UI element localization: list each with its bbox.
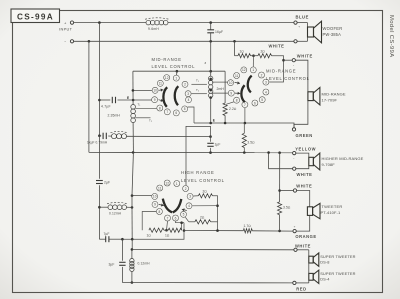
inductor L6 0.12mH xyxy=(130,249,150,282)
label GREEN xyxy=(296,133,313,138)
wire railB to S3 c10 xyxy=(132,195,152,197)
node wireA x177 xyxy=(176,70,179,73)
svg-text:1: 1 xyxy=(175,76,177,80)
svg-text:ORANGE: ORANGE xyxy=(295,234,316,239)
svg-text:GREEN: GREEN xyxy=(296,133,313,138)
node R7 R8 xyxy=(164,229,168,232)
terminal white hm xyxy=(293,167,296,170)
svg-text:4.7µF: 4.7µF xyxy=(101,105,111,109)
svg-text:WHITE: WHITE xyxy=(269,44,285,49)
switch S3 wiper left xyxy=(163,199,172,213)
tap wire L3 to S2 c9 xyxy=(212,92,228,94)
node railB y239 xyxy=(131,238,134,241)
node orange x279 xyxy=(278,230,281,233)
svg-text:3: 3 xyxy=(265,80,267,84)
label WHITE st xyxy=(295,244,311,249)
svg-text:HIGH RANGE: HIGH RANGE xyxy=(181,170,215,175)
label WHITE hm xyxy=(297,172,313,177)
inductor L1 9.6mH xyxy=(145,18,169,31)
node L6 top xyxy=(131,248,134,251)
wire S3 c4 out xyxy=(192,205,217,207)
label YELLOW xyxy=(295,147,316,152)
svg-text:+: + xyxy=(294,225,296,229)
svg-text:WHITE: WHITE xyxy=(297,53,313,58)
wire 0.12mH branch xyxy=(99,206,108,208)
speaker woofer xyxy=(308,21,322,43)
svg-text:2Ω: 2Ω xyxy=(203,190,208,194)
capacitor C5 1uF xyxy=(207,137,220,153)
node x279 y190 xyxy=(278,189,281,192)
svg-text:SUPER TWEETER: SUPER TWEETER xyxy=(320,254,355,259)
svg-text:2: 2 xyxy=(184,83,186,87)
wire x184 down xyxy=(122,223,184,240)
wire R3 to white xyxy=(269,56,283,82)
node label E1 xyxy=(127,96,129,100)
capacitor C2 2uF xyxy=(96,181,110,185)
svg-text:E: E xyxy=(127,96,129,100)
terminal yellow xyxy=(293,151,296,160)
resistor R6 2ohm xyxy=(189,216,211,224)
inductor L4 0.79mH xyxy=(111,131,128,138)
stub to sw1 contact1 xyxy=(176,71,178,75)
svg-text:16µF: 16µF xyxy=(215,30,223,34)
svg-text:Model CS-99A: Model CS-99A xyxy=(388,15,394,58)
svg-text:2Ω: 2Ω xyxy=(261,50,266,54)
svg-text:0.12mH: 0.12mH xyxy=(109,212,122,216)
wire T2 link xyxy=(191,88,207,94)
wire bus mid xyxy=(194,123,294,128)
label BLUE xyxy=(296,15,309,20)
node buslow x244 xyxy=(243,151,246,154)
speaker super tweeter 2 xyxy=(309,270,319,283)
svg-text:RED: RED xyxy=(296,286,306,291)
label ORANGE xyxy=(295,234,316,239)
svg-text:10: 10 xyxy=(153,195,157,199)
svg-text:7µF: 7µF xyxy=(104,232,110,236)
stub to S2 contact1 xyxy=(252,56,254,67)
speaker higher mid xyxy=(309,153,320,170)
switch S3 wiper right xyxy=(173,199,182,212)
wire S3 c6 drop xyxy=(176,221,185,223)
svg-text:8: 8 xyxy=(159,106,161,110)
switch S2 wiper upper xyxy=(248,76,252,93)
node railB y90 xyxy=(132,89,135,92)
resistor R5 2ohm xyxy=(198,190,212,198)
svg-text:TWEETER: TWEETER xyxy=(322,204,343,209)
svg-text:1Ω: 1Ω xyxy=(240,50,245,54)
wire railB mid xyxy=(132,152,133,239)
svg-text:1Ω: 1Ω xyxy=(165,233,170,237)
node bus2 input xyxy=(88,40,91,43)
rotary switch S3 contacts xyxy=(152,180,193,221)
inductor L3 2mH xyxy=(209,76,225,97)
wiper arrow S1 b xyxy=(159,89,164,92)
svg-text:3.5Ω: 3.5Ω xyxy=(247,141,255,145)
terminal blue xyxy=(294,21,300,29)
wire R6 right xyxy=(211,221,218,223)
wire mid leads xyxy=(294,60,308,127)
label WHITE woofer xyxy=(269,44,285,49)
resistor R2 1ohm xyxy=(235,50,251,58)
svg-text:HIGHER MID-RANGE: HIGHER MID-RANGE xyxy=(322,156,364,161)
wire hp feed up xyxy=(186,126,211,185)
label high range xyxy=(181,170,225,183)
svg-text:INPUT: INPUT xyxy=(59,28,73,32)
wire white tweeter xyxy=(280,190,294,192)
svg-text:6: 6 xyxy=(254,101,256,105)
svg-text:2.35mH: 2.35mH xyxy=(108,114,121,118)
node x217 y230 xyxy=(216,229,219,232)
node bus2 x210 xyxy=(209,40,212,43)
node L3 bottom xyxy=(209,96,212,99)
svg-text:4: 4 xyxy=(265,90,267,94)
wire red bus xyxy=(122,282,292,284)
node x184 y230 xyxy=(183,229,186,232)
switch S2 wiper lower xyxy=(241,85,244,102)
wire L5 to railB xyxy=(127,206,133,208)
wire S1 bottom to busmid xyxy=(188,107,194,123)
svg-text:11: 11 xyxy=(159,82,163,86)
rotary switch S2 contacts xyxy=(228,67,269,108)
svg-text:10: 10 xyxy=(229,81,233,85)
svg-text:1kµF 0.79mH: 1kµF 0.79mH xyxy=(87,141,108,145)
svg-text:MID-RANGE: MID-RANGE xyxy=(266,69,296,74)
svg-text:2Ω: 2Ω xyxy=(200,216,205,220)
rotary switch S1 contacts xyxy=(152,75,192,116)
terminal orange xyxy=(293,225,296,233)
wire railB corner xyxy=(131,239,133,249)
wiper arrow S3 b xyxy=(182,208,187,211)
wire S3 c3 out xyxy=(193,195,198,197)
svg-text:12: 12 xyxy=(242,68,246,72)
capacitor C4 1kuF xyxy=(87,133,108,145)
svg-text:E: E xyxy=(213,119,215,123)
node L3 mid tap xyxy=(209,89,212,92)
node bus1 x99 xyxy=(98,21,101,24)
terminal red xyxy=(293,281,296,284)
svg-text:2mH: 2mH xyxy=(217,87,225,91)
svg-text:11: 11 xyxy=(158,186,162,190)
switch S1 wiper left xyxy=(163,87,167,107)
node 7uF x122 xyxy=(121,238,124,241)
tap wire L3 to S2 c10 xyxy=(212,81,228,83)
wire tweeter pad xyxy=(184,230,243,232)
svg-text:WOOFER: WOOFER xyxy=(323,26,343,31)
speaker tweeter xyxy=(307,203,320,218)
svg-text:6: 6 xyxy=(175,216,177,220)
wire 2.2ohm bottom xyxy=(224,116,226,124)
resistor R8 1ohm xyxy=(165,228,182,237)
node L6 bottom xyxy=(131,281,134,284)
wire R5 right xyxy=(212,196,217,231)
svg-text:CS-99A: CS-99A xyxy=(17,12,54,21)
node 2.35mH top xyxy=(132,99,135,102)
wiper arrow S2 b xyxy=(235,92,240,95)
svg-text:3.5Ω: 3.5Ω xyxy=(283,206,291,210)
input terminal minus xyxy=(64,39,73,44)
node railB y195 xyxy=(131,194,134,197)
resistor R3 2ohm xyxy=(258,50,272,58)
svg-text:WHITE: WHITE xyxy=(297,172,313,177)
label WHITE tw xyxy=(296,184,312,189)
svg-text:MID-RANGE: MID-RANGE xyxy=(322,91,346,96)
node rail plus y135 xyxy=(98,134,101,137)
wire white hm return xyxy=(267,151,292,169)
model label xyxy=(388,15,394,58)
wire S2 c8 diag xyxy=(226,102,234,105)
label tweeter xyxy=(321,204,343,215)
wiper arrow S2 a xyxy=(235,81,240,84)
svg-text:2: 2 xyxy=(261,73,263,77)
svg-text:5: 5 xyxy=(261,98,263,102)
resistor R10 3.5ohm xyxy=(278,202,282,215)
speaker super tweeter 1 xyxy=(309,253,319,266)
svg-text:7: 7 xyxy=(166,110,168,114)
svg-text:12: 12 xyxy=(165,76,169,80)
node busmid x210 xyxy=(209,122,212,125)
svg-text:9: 9 xyxy=(230,91,232,95)
svg-text:11: 11 xyxy=(235,74,239,78)
capacitor C6 7uF xyxy=(99,232,122,242)
resistor R4 3.5ohm xyxy=(242,123,255,153)
wire bus2 xyxy=(74,40,294,42)
wire hp branch xyxy=(99,135,210,138)
wire 2.35mH bottom xyxy=(132,123,134,153)
svg-text:1.7Ω: 1.7Ω xyxy=(244,224,252,228)
node R2 R3 xyxy=(251,54,259,57)
node wireA x210 xyxy=(209,70,212,73)
wire 3uF line xyxy=(121,239,123,282)
wire super tweeter bus xyxy=(132,248,294,250)
label WHITE mid xyxy=(297,53,313,58)
svg-text:1Ω: 1Ω xyxy=(147,233,152,237)
resistor R9 1.7ohm xyxy=(243,224,252,233)
label super tweeter 1 xyxy=(320,254,355,264)
switch S1 wiper right xyxy=(175,86,179,105)
wire bus2 drop x234 xyxy=(234,41,236,55)
inductor L2 2.35mH xyxy=(108,105,136,123)
svg-text:YELLOW: YELLOW xyxy=(295,147,316,152)
input terminal plus xyxy=(64,20,74,25)
wire 1.7 to orange xyxy=(252,230,292,232)
svg-text:LEVEL CONTROL: LEVEL CONTROL xyxy=(266,76,310,81)
terminal white st xyxy=(294,248,297,251)
svg-text:BLUE: BLUE xyxy=(296,15,309,20)
svg-text:9.6mH: 9.6mH xyxy=(148,27,159,31)
svg-text:9: 9 xyxy=(154,98,156,102)
node white mid xyxy=(282,59,285,62)
tap T2 of L2 xyxy=(135,118,152,123)
svg-text:-: - xyxy=(293,156,294,160)
svg-text:7: 7 xyxy=(167,216,169,220)
wire higher mid leads xyxy=(296,153,309,169)
label RED xyxy=(296,286,306,291)
svg-text:8: 8 xyxy=(236,99,238,103)
wire T1 link xyxy=(191,78,207,84)
svg-text:12: 12 xyxy=(165,181,169,185)
label R10 xyxy=(283,206,291,210)
svg-text:4: 4 xyxy=(188,204,190,208)
wiper arrow S1 a xyxy=(159,99,164,102)
node hp x210 xyxy=(209,135,212,138)
wire x279 lower xyxy=(279,215,281,231)
node buslow x210 xyxy=(209,151,212,154)
wire 2.2ohm drop xyxy=(224,71,226,103)
wiper arrow S3 a xyxy=(159,204,164,207)
svg-text:17-709F: 17-709F xyxy=(322,97,338,102)
svg-text:DS-8: DS-8 xyxy=(320,259,329,264)
svg-text:PT-410F-1: PT-410F-1 xyxy=(321,210,341,215)
wire A xyxy=(133,70,225,72)
capacitor C3 4.7uF xyxy=(101,97,116,109)
wire bus1 left xyxy=(74,22,146,24)
svg-text:LEVEL CONTROL: LEVEL CONTROL xyxy=(181,178,225,183)
node label E2 xyxy=(213,119,215,123)
svg-text:2µF: 2µF xyxy=(104,181,110,185)
capacitor C7 3uF xyxy=(109,262,126,266)
svg-text:LEVEL CONTROL: LEVEL CONTROL xyxy=(152,64,196,69)
wire railB upper xyxy=(132,71,134,104)
node busmid x225 xyxy=(224,122,227,125)
label mid range control 2 xyxy=(266,69,310,81)
terminal green xyxy=(292,128,295,131)
svg-text:PW-385A: PW-385A xyxy=(323,32,342,37)
wire to S1 contact 10 xyxy=(133,89,152,91)
tap T1 of L2 xyxy=(135,103,156,109)
svg-text:2: 2 xyxy=(185,187,187,191)
svg-text:1: 1 xyxy=(252,68,254,72)
label INPUT xyxy=(59,28,73,32)
svg-text:10: 10 xyxy=(153,89,157,93)
svg-text:DS-4: DS-4 xyxy=(320,277,330,282)
node buslow x133 xyxy=(132,151,135,154)
node rail plus y100 xyxy=(98,99,101,102)
terminal white woofer xyxy=(294,40,297,43)
wire x279 upper xyxy=(279,153,281,202)
resistor R1 2.2ohm xyxy=(223,103,237,116)
label higher mid xyxy=(322,156,364,167)
svg-text:5: 5 xyxy=(184,107,186,111)
wire 4.7uF branch xyxy=(99,99,151,101)
svg-text:3µF: 3µF xyxy=(109,263,115,267)
label mid range control 1 xyxy=(152,57,196,69)
capacitor C1 16uF xyxy=(207,23,223,42)
node bus1 x210 xyxy=(209,21,212,24)
label super tweeter 2 xyxy=(320,271,355,281)
node x217 y205 xyxy=(216,204,219,207)
wire L3 bottom to busmid xyxy=(210,98,212,123)
wire S2 c7 drop xyxy=(244,108,246,123)
wire rail minus xyxy=(88,41,90,152)
svg-text:9: 9 xyxy=(154,203,156,207)
svg-text:MID-RANGE: MID-RANGE xyxy=(152,57,182,62)
node busmid x244 xyxy=(244,122,247,125)
svg-text:2.2Ω: 2.2Ω xyxy=(229,107,237,111)
wire bus low xyxy=(89,151,293,153)
label mid-range xyxy=(322,91,346,102)
svg-text:6: 6 xyxy=(175,111,177,115)
svg-text:1µF: 1µF xyxy=(215,142,221,146)
resistor R7 1ohm xyxy=(147,228,165,237)
wire bus1 right xyxy=(168,22,294,24)
wire S3 c5 out xyxy=(185,217,189,222)
inductor L5 0.12mH xyxy=(107,202,128,215)
terminal white mid xyxy=(292,59,295,68)
svg-text:T₁: T₁ xyxy=(196,78,199,82)
svg-text:WHITE: WHITE xyxy=(295,244,311,249)
svg-text:1: 1 xyxy=(176,182,178,186)
node L3 top tap xyxy=(209,78,212,81)
wire super tweeter lead top xyxy=(297,250,309,256)
svg-text:4: 4 xyxy=(188,98,190,102)
svg-text:SUPER TWEETER: SUPER TWEETER xyxy=(320,271,355,276)
wire tweeter leads xyxy=(296,191,309,232)
node bus2 x234 xyxy=(233,40,236,43)
svg-text:+: + xyxy=(298,25,300,29)
svg-text:WHITE: WHITE xyxy=(296,184,312,189)
svg-text:5: 5 xyxy=(183,213,185,217)
svg-text:7: 7 xyxy=(244,103,246,107)
node buslow x279 xyxy=(278,151,281,154)
label woofer xyxy=(323,26,343,37)
title box CS-99A xyxy=(11,9,60,23)
wire S3 c8 out xyxy=(142,212,156,231)
svg-text:0.12mH: 0.12mH xyxy=(138,262,151,266)
wire 16uF to coil xyxy=(205,41,211,76)
svg-text:T₁: T₁ xyxy=(138,103,141,107)
wire R8 up xyxy=(180,221,184,230)
node railB y207 xyxy=(131,206,134,209)
wire super tweeter mid xyxy=(308,263,310,273)
speaker mid-range xyxy=(308,87,320,105)
wire woofer leads xyxy=(297,23,307,42)
svg-text:9-708F: 9-708F xyxy=(322,162,336,167)
node rail plus y207 xyxy=(98,206,101,209)
terminal white tw xyxy=(293,189,296,192)
svg-text:3: 3 xyxy=(187,92,189,96)
svg-text:8: 8 xyxy=(159,210,161,214)
wire S3 c7 drop xyxy=(167,221,168,230)
svg-text:3: 3 xyxy=(189,195,191,199)
wire super tweeter lead bottom xyxy=(296,280,309,283)
wire rail plus xyxy=(98,23,100,136)
wire rail plus lower xyxy=(98,136,100,240)
wire white mid terminal xyxy=(284,59,292,61)
